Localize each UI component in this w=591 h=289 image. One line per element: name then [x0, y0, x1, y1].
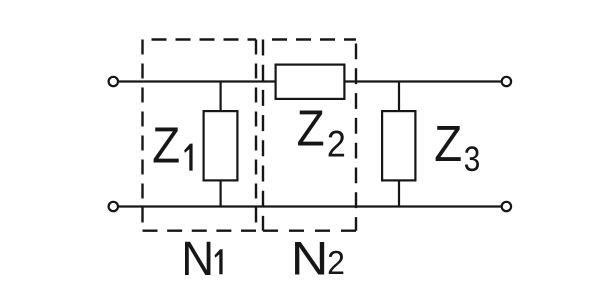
svg-text:3: 3 — [464, 138, 481, 178]
svg-text:Z: Z — [152, 117, 180, 174]
svg-text:2: 2 — [327, 245, 345, 282]
svg-text:N: N — [291, 232, 329, 285]
svg-text:2: 2 — [327, 123, 346, 165]
svg-text:Z: Z — [297, 100, 325, 157]
svg-text:N: N — [181, 232, 214, 285]
svg-text:Z: Z — [434, 116, 462, 173]
